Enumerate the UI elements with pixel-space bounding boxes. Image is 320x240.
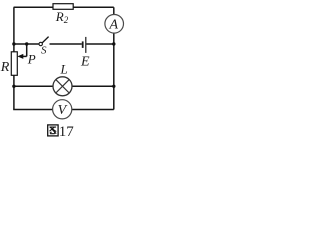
svg-text:R: R xyxy=(0,60,10,75)
svg-text:P: P xyxy=(27,52,36,67)
svg-text:2: 2 xyxy=(64,15,69,25)
svg-text:V: V xyxy=(58,103,68,118)
svg-text:A: A xyxy=(109,18,119,33)
svg-text:17: 17 xyxy=(59,124,75,138)
svg-text:E: E xyxy=(80,55,90,70)
svg-text:S: S xyxy=(41,45,47,57)
svg-text:R: R xyxy=(55,9,64,24)
svg-text:L: L xyxy=(60,62,68,77)
